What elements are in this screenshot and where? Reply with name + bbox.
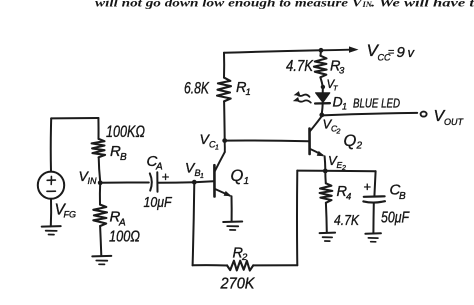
svg-text:1: 1 — [342, 102, 347, 112]
node VC2 — [319, 113, 324, 118]
label Q1 — [231, 167, 250, 187]
label Q2 — [344, 132, 363, 152]
resistor R3 — [314, 56, 327, 78]
svg-text:OUT: OUT — [444, 117, 465, 127]
svg-text:10μF: 10μF — [144, 195, 173, 211]
node VB1 — [192, 180, 197, 185]
wire VFG top up to corner — [50, 118, 52, 171]
svg-text:100Ω: 100Ω — [109, 229, 140, 246]
resistor RA — [93, 205, 107, 226]
label D1 — [333, 94, 348, 112]
LED D1 (diode triangle + cathode bar) — [315, 93, 330, 104]
arrowhead VCC — [349, 46, 359, 52]
wire Q1 emitter to ground — [231, 196, 233, 221]
svg-text:4: 4 — [346, 192, 351, 203]
wire VT to LED anode — [322, 87, 324, 93]
svg-text:4.7K: 4.7K — [286, 58, 314, 75]
label VIN — [79, 168, 98, 186]
wire RA to ground — [100, 226, 101, 256]
label R3 — [330, 59, 345, 77]
ground (Q1 emitter) — [223, 221, 242, 224]
wire R1 to top rail corner — [223, 53, 225, 78]
LED emission arrows — [293, 91, 311, 103]
node VC1 — [222, 138, 227, 143]
svg-text:2: 2 — [241, 252, 248, 263]
top cut-off caption text — [95, 0, 474, 10]
label VT — [327, 79, 340, 93]
ground (VFG) — [42, 225, 61, 228]
svg-text:1: 1 — [200, 173, 204, 180]
wire VIN to CA — [100, 181, 149, 183]
label CB — [390, 182, 407, 203]
label RA — [110, 209, 127, 229]
wire top corner to RB branch — [51, 117, 98, 119]
svg-text:will not go down low enough to: will not go down low enough to measure V — [95, 0, 363, 10]
wire VB1 down (feedback left leg) — [193, 182, 195, 265]
svg-text:IN: IN — [88, 176, 98, 186]
label VFG — [55, 202, 77, 220]
resistor R4 — [320, 183, 333, 203]
wire R2 to right leg — [253, 264, 297, 266]
label R4 — [337, 184, 352, 203]
svg-text:1: 1 — [215, 145, 219, 152]
svg-text:9: 9 — [397, 44, 406, 61]
resistor RB — [92, 139, 106, 157]
transistor Q2 — [310, 117, 325, 157]
svg-text:B: B — [399, 191, 406, 202]
svg-text:=: = — [388, 47, 394, 59]
label R1 — [236, 80, 251, 98]
svg-text:A: A — [118, 218, 126, 229]
label VOUT — [434, 108, 465, 127]
wire down to RB — [97, 118, 99, 139]
terminal VOUT (open circle) — [421, 112, 427, 117]
svg-text:v: v — [408, 45, 416, 60]
wire feedback right leg up to VE2 line — [296, 171, 298, 266]
wire VE2 down to R4 — [324, 171, 327, 183]
label VC1 — [200, 131, 220, 152]
ground (CB) — [365, 232, 381, 235]
node VIN — [98, 180, 103, 185]
wire VFG bottom to ground — [50, 199, 52, 226]
label CA — [147, 153, 164, 173]
label VC2 — [323, 117, 341, 136]
wire VC1 to Q2 base — [225, 139, 309, 142]
svg-text:50μF: 50μF — [381, 210, 410, 227]
wire VCC arrow — [321, 49, 350, 52]
wire VE2 horizontal (left to feedback, right to CB) — [297, 170, 375, 173]
svg-text:FG: FG — [64, 210, 77, 220]
wire top rail — [224, 50, 321, 53]
svg-text:T: T — [333, 84, 339, 93]
label R2 — [233, 246, 249, 264]
capacitor CA — [150, 172, 158, 192]
node VE2 — [323, 169, 328, 174]
svg-text:1: 1 — [246, 87, 251, 98]
wire VIN down to RA — [99, 183, 101, 205]
resistor R2 — [227, 261, 253, 271]
transistor Q1 — [214, 143, 231, 197]
svg-text:BLUE LED: BLUE LED — [353, 97, 400, 111]
ground (R4) — [320, 232, 336, 235]
source VFG circle — [38, 172, 64, 199]
wire rail node to R3 — [320, 50, 323, 55]
ground (RA) — [92, 255, 111, 258]
svg-text:Q: Q — [231, 167, 244, 185]
wire RB to VIN node — [99, 157, 100, 180]
wire CA to VB1 node — [158, 181, 195, 184]
label VCC = 9V — [367, 41, 416, 63]
svg-text:+: + — [364, 179, 372, 194]
label RB — [110, 143, 127, 163]
svg-text:. We will have t: . We will have t — [371, 0, 474, 10]
wire VC1 up to R1 — [223, 101, 226, 140]
wire Q2 emitter to VE2 — [324, 156, 327, 169]
wire VB1 to Q1 base — [194, 181, 213, 182]
svg-text:3: 3 — [339, 66, 345, 77]
wire right corner down to CB — [374, 171, 375, 196]
label VE2 — [328, 153, 346, 172]
wire LED cathode to VC2 — [321, 104, 324, 114]
node VT — [321, 85, 325, 89]
wire R3 to VT node — [320, 77, 322, 87]
svg-text:2: 2 — [336, 129, 341, 136]
wire R4 to ground — [325, 203, 328, 233]
svg-text:2: 2 — [356, 141, 363, 152]
svg-text:1: 1 — [244, 176, 250, 187]
node top rail / R3 — [319, 48, 324, 53]
svg-text:B: B — [120, 152, 127, 163]
resistor R1 — [217, 78, 231, 102]
svg-text:4.7K: 4.7K — [334, 212, 360, 229]
wire bottom left to R2 — [193, 264, 227, 266]
capacitor CB — [363, 196, 385, 202]
svg-text:100KΩ: 100KΩ — [106, 123, 145, 141]
label VB1 — [185, 160, 204, 181]
wire CB to ground — [372, 203, 374, 233]
wire VC2 to VOUT terminal — [322, 113, 417, 116]
svg-text:Q: Q — [344, 132, 357, 150]
svg-text:6.8K: 6.8K — [184, 80, 210, 98]
svg-text:270K: 270K — [220, 276, 256, 293]
